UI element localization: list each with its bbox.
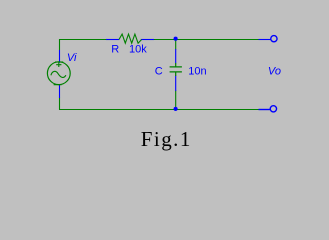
wire: capacitor top stub from junction bbox=[175, 40, 177, 50]
capacitor C: bottom pin (blue) bbox=[175, 76, 177, 91]
capacitor C: top plate with stub bbox=[170, 63, 182, 67]
svg-text:Vi: Vi bbox=[67, 52, 77, 64]
svg-text:Fig.1: Fig.1 bbox=[141, 127, 192, 151]
voltage source V1 pin (bottom, blue) bbox=[59, 85, 61, 98]
resistor R: zigzag body bbox=[119, 34, 142, 43]
capacitor C: bottom plate with stub bbox=[170, 72, 182, 76]
voltage source V1 pin (top, blue) bbox=[59, 50, 61, 63]
svg-text:10n: 10n bbox=[188, 65, 206, 77]
wire: capacitor bottom stub to bottom rail bbox=[175, 91, 177, 110]
voltage source Vi: circle body bbox=[47, 62, 70, 85]
svg-text:R: R bbox=[111, 43, 119, 55]
voltage source Vi: sine wave bbox=[51, 71, 66, 77]
resistor R: left pin (blue) bbox=[106, 39, 119, 41]
capacitor C: top pin (blue) bbox=[175, 49, 177, 63]
voltage source Vi: top connection tick bbox=[55, 61, 63, 63]
output terminal circle top bbox=[271, 36, 277, 42]
output terminal circle bottom bbox=[270, 106, 276, 112]
junction dot at top node (C to top rail) bbox=[174, 37, 178, 41]
output terminal pin bottom (blue) bbox=[259, 109, 271, 111]
svg-text:Vo: Vo bbox=[268, 65, 281, 77]
resistor R: right pin (blue) bbox=[141, 39, 154, 41]
output terminal pin top (blue) bbox=[259, 39, 271, 41]
wire: bottom horizontal rail bbox=[59, 109, 259, 111]
wire: top-left horizontal segment (node between Vi and R) bbox=[60, 40, 107, 51]
wire: left vertical below source to bottom rail bbox=[59, 98, 61, 110]
svg-text:10k: 10k bbox=[129, 43, 147, 55]
junction dot at bottom node (C to bottom rail) bbox=[174, 107, 178, 111]
wire: top horizontal segment from R to output terminal bbox=[154, 39, 259, 41]
voltage source Vi: plus sign bbox=[56, 62, 61, 67]
voltage source Vi: bottom connection tick (minus) bbox=[54, 84, 62, 86]
svg-text:C: C bbox=[155, 65, 163, 77]
